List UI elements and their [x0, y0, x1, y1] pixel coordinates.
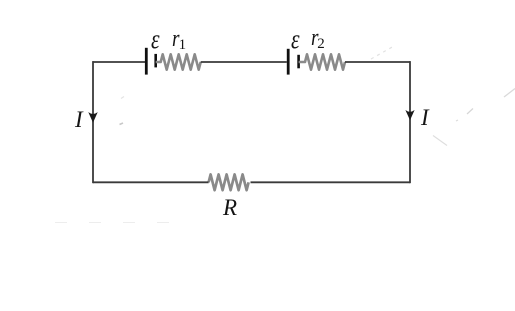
internal resistance r1 zigzag: [156, 54, 201, 69]
current I arrowhead left (downward): [88, 112, 97, 123]
wire bottom-left segment: [93, 181, 209, 183]
label ε (emf of cell 2): [291, 24, 300, 55]
wire left vertical segment: [92, 61, 94, 183]
label R (external resistor): [223, 195, 237, 221]
internal resistance r2 zigzag: [299, 54, 345, 69]
battery cell 2 (emf ε) long positive plate: [287, 49, 290, 75]
label r1 (internal resistance 1): [172, 26, 179, 53]
label I (current, right branch): [421, 105, 429, 131]
label r2 subscript 2: [317, 36, 325, 53]
wire top-left segment: [93, 61, 146, 63]
label I (current, left branch): [75, 107, 83, 133]
label r1 subscript 1: [179, 37, 187, 54]
resistor R zigzag: [209, 174, 249, 190]
battery cell 2 (emf ε) short negative plate: [297, 55, 300, 69]
battery cell 1 (emf ε) short negative plate: [154, 54, 157, 68]
wire right vertical segment: [409, 61, 411, 183]
battery cell 1 (emf ε) long positive plate: [145, 48, 148, 75]
current I arrowhead right (downward): [405, 110, 414, 120]
wire bottom-right segment: [251, 181, 411, 183]
wire between r1 and cell 2: [201, 61, 287, 63]
label r2 (internal resistance 2): [311, 25, 318, 52]
label ε (emf of cell 1): [151, 24, 160, 55]
wire top-right segment: [345, 61, 410, 63]
